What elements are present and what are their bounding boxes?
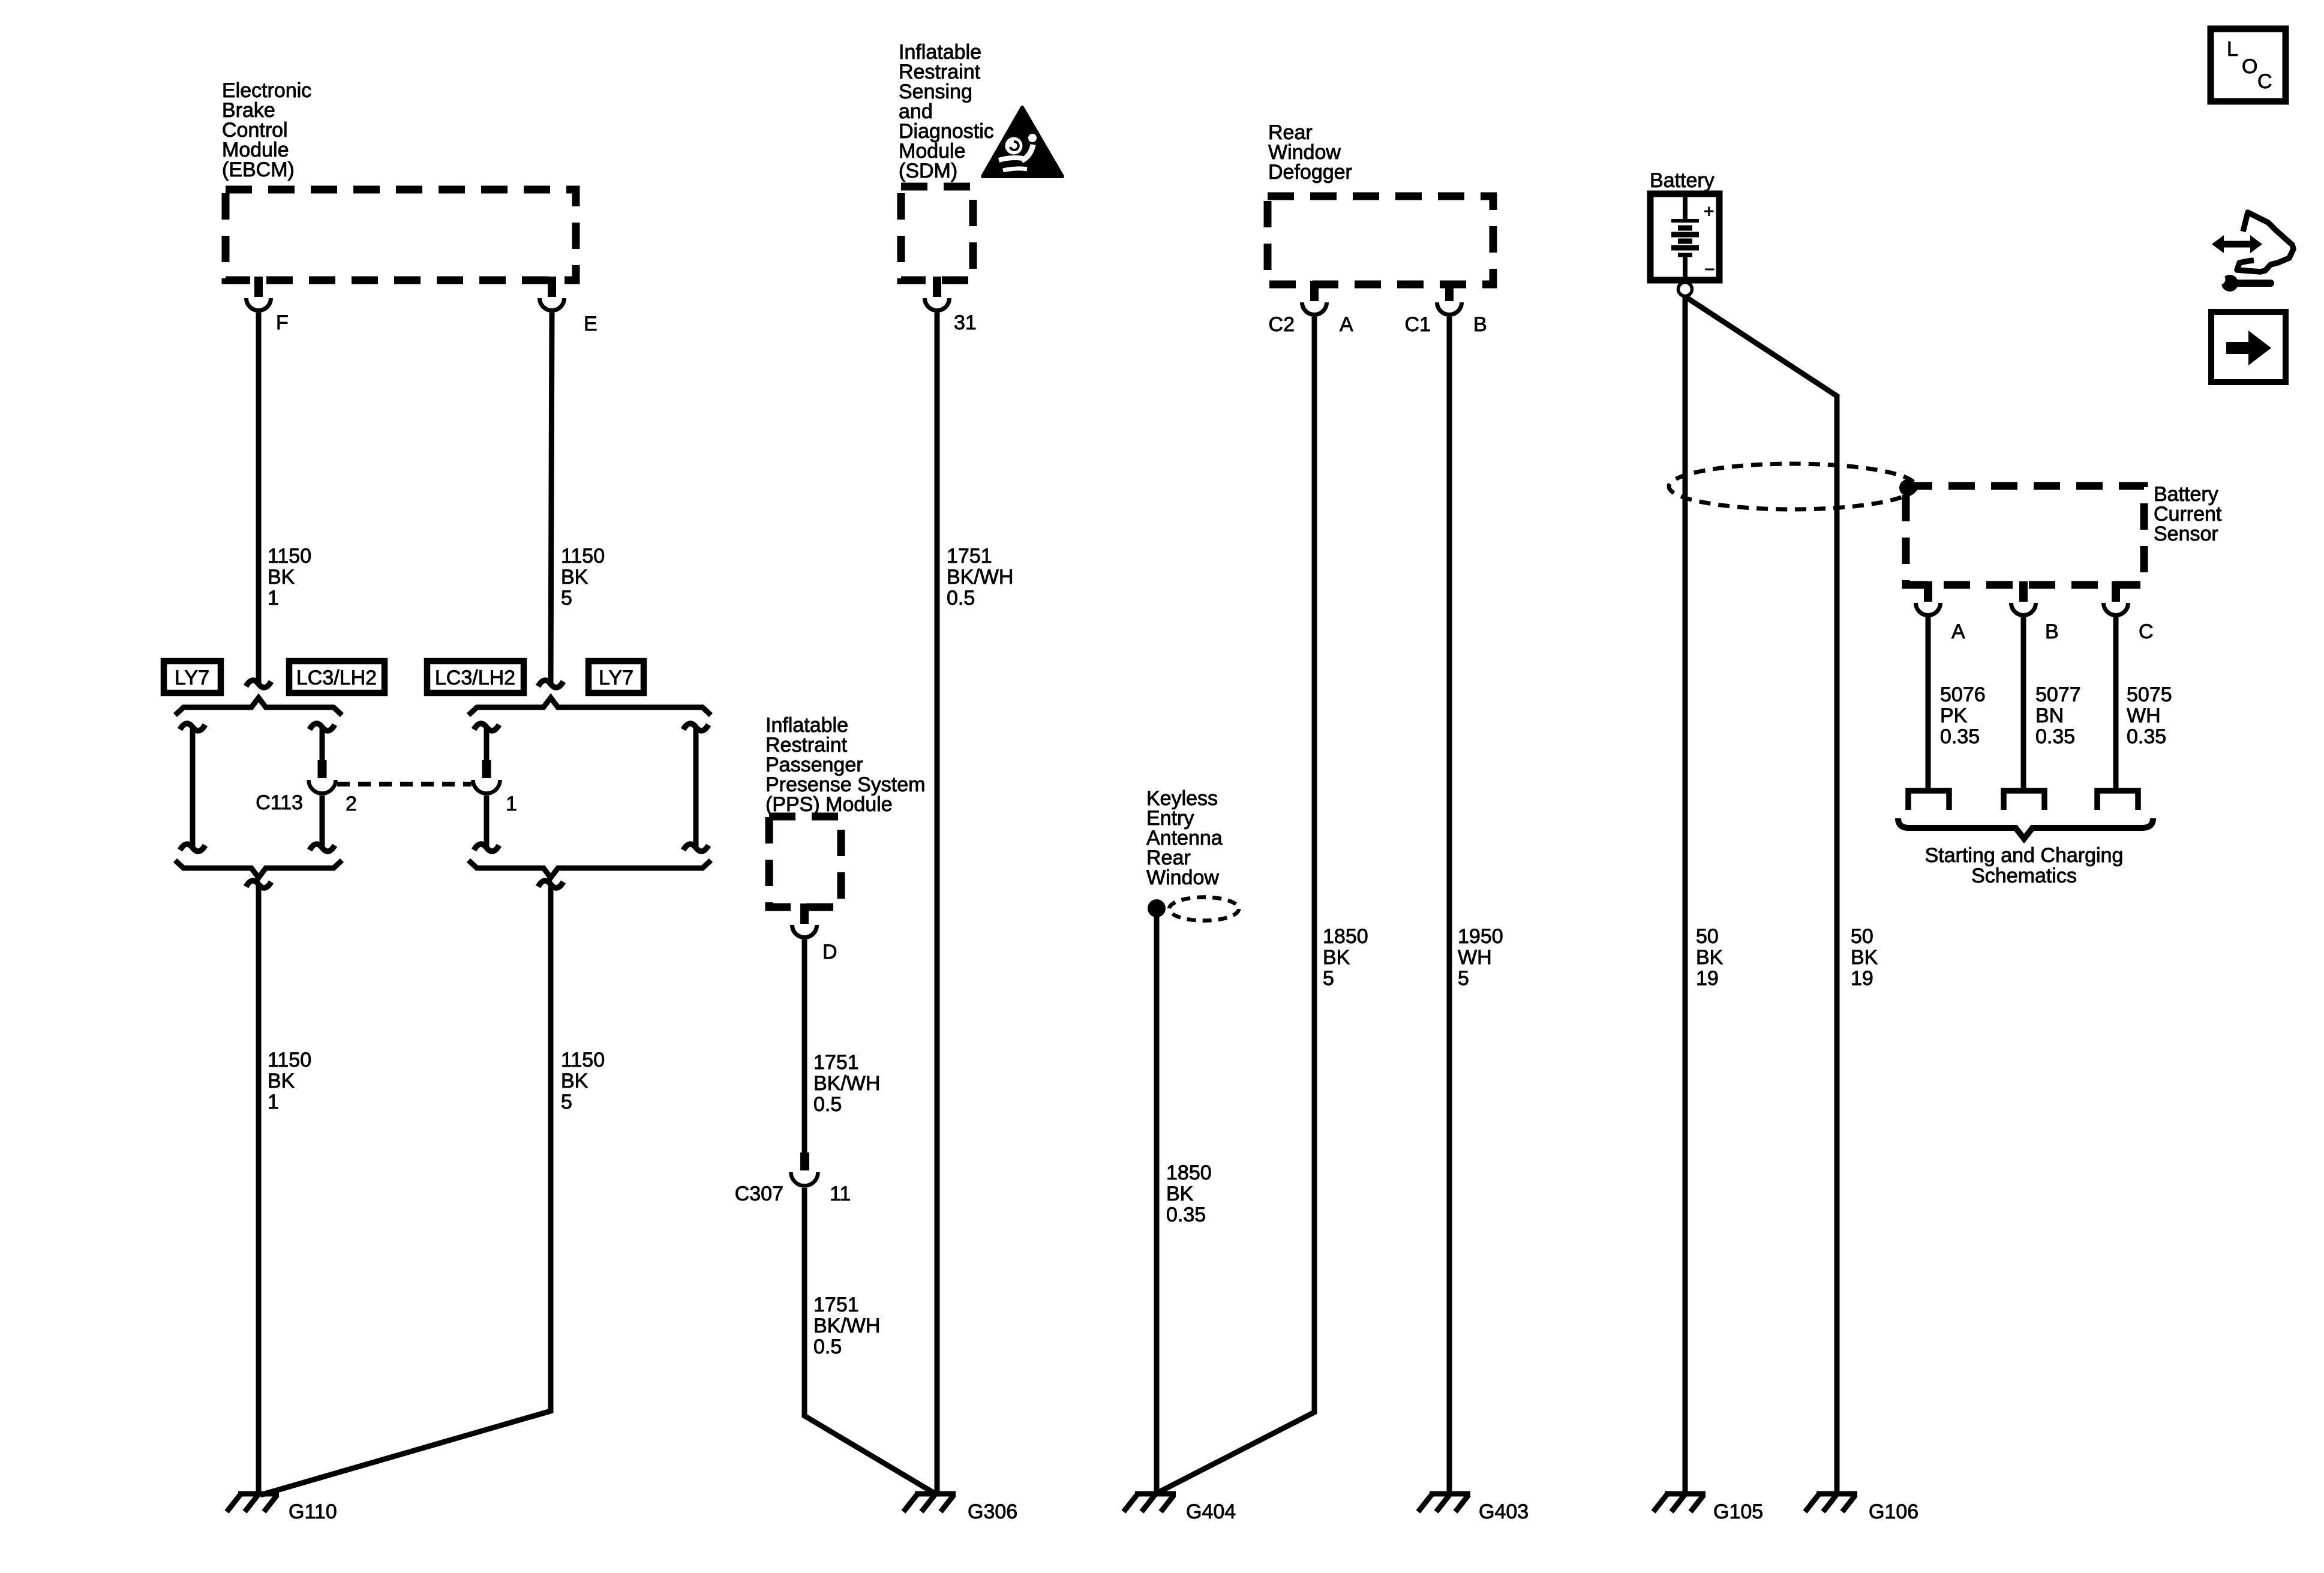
svg-text:G403: G403 (1479, 1500, 1529, 1523)
ground G306 (903, 1494, 956, 1512)
wire label 1150 BK 1 (upper) (268, 545, 311, 610)
ground G105 (1653, 1494, 1706, 1512)
label Inflatable Restraint Sensing and Diagnostic Module (SDM) (899, 41, 994, 182)
forward arrow box icon (2211, 312, 2286, 382)
connector C307 pin 11 (male pin and terminal) (791, 1152, 818, 1186)
svg-text:D: D (822, 941, 837, 963)
pin B of current sensor (2011, 581, 2036, 616)
wire break symbol on F wire (246, 680, 271, 688)
wire LC3/LH2 path lower (left) (320, 795, 325, 848)
keyless entry antenna (node dot and dashed loop) (1148, 897, 1239, 921)
ground label G403 (1479, 1500, 1529, 1523)
svg-text:LC3/LH2: LC3/LH2 (296, 667, 377, 689)
label Keyless Entry Antenna Rear Window (1146, 787, 1223, 889)
wire label 1850 BK 0.35 (1166, 1161, 1212, 1226)
svg-text:G404: G404 (1186, 1500, 1236, 1523)
wire label 1150 BK 5 (lower) (561, 1049, 605, 1113)
svg-text:1: 1 (506, 792, 517, 815)
svg-text:G105: G105 (1713, 1500, 1763, 1523)
wire 1150 BK 5 to G110 (260, 884, 551, 1495)
svg-text:C307: C307 (735, 1182, 783, 1205)
pin label A (1951, 620, 1965, 643)
label Battery Current Sensor (2154, 483, 2222, 545)
break symbol bottom of LC3/LH2 path (left) (310, 844, 335, 851)
connector C113 pin 2 (male pin and terminal) (309, 760, 336, 794)
ground G106 (1805, 1494, 1857, 1512)
connector C113 pin 1 (male pin and terminal) (473, 760, 500, 794)
module Rear Window Defogger (dashed box) (1268, 196, 1493, 284)
svg-text:C2: C2 (1269, 313, 1295, 336)
pin label B of defogger (1473, 313, 1487, 336)
battery symbol (1650, 194, 1719, 296)
pin number 2 of C113 (346, 792, 357, 815)
svg-text:2: 2 (346, 792, 357, 815)
wire label 1751 BK/WH 0.5 (SDM) (947, 545, 1013, 610)
connector label C113 (256, 791, 303, 814)
ground label G306 (968, 1500, 1017, 1523)
svg-text:O: O (2242, 55, 2257, 78)
module SDM (dashed box) (901, 187, 973, 280)
module EBCM (dashed box) (226, 190, 576, 280)
svg-text:F: F (276, 311, 289, 334)
wire label 5076 PK 0.35 (1940, 683, 1986, 748)
harness/diagnosis icon (double arrow, outline, wrench) (2212, 212, 2293, 292)
option split brace bottom left (175, 860, 342, 878)
pin F of EBCM (247, 277, 271, 311)
label Inflatable Restraint Passenger Presense System (PPS) Module (765, 714, 925, 816)
break symbol bottom of LC3/LH2 path (right) (474, 844, 499, 851)
wire 50 BK 19 from battery to G105 (1683, 296, 1688, 1494)
connector label C2 (1269, 313, 1295, 336)
airbag warning triangle icon (983, 107, 1062, 176)
off-page terminal for wire B (2004, 791, 2044, 810)
dashed mating line of connector C113 (337, 782, 472, 786)
svg-text:C: C (2257, 70, 2272, 93)
wire 1751 BK/WH 0.5 from SDM pin 31 to G306 (935, 313, 940, 1494)
pin label 31 (954, 311, 977, 334)
wire 1150 BK 5 from EBCM pin E (551, 313, 552, 686)
pin label C (2139, 620, 2154, 643)
underbrace to Starting and Charging Schematics (1898, 818, 2153, 839)
wire label 1751 BK/WH 0.5 (upper PPS) (813, 1051, 880, 1116)
pin C of current sensor (2104, 581, 2128, 616)
off-page terminal for wire A (1908, 791, 1949, 810)
svg-text:31: 31 (954, 311, 977, 334)
break symbol top of LC3/LH2 path (left) (310, 724, 335, 731)
svg-text:L: L (2227, 38, 2238, 61)
ground label G106 (1869, 1500, 1918, 1523)
wire 5075 WH 0.35 from sensor pin C (2113, 617, 2119, 791)
svg-text:B: B (2045, 620, 2059, 643)
wire 5076 PK 0.35 from sensor pin A (1926, 617, 1931, 791)
wire 1751 BK/WH 0.5 from PPS pin D (802, 939, 807, 1154)
option label box LY7 (right) (588, 661, 644, 693)
svg-text:C1: C1 (1405, 313, 1431, 336)
svg-text:G110: G110 (289, 1500, 337, 1523)
break symbol top of LY7 path (left) (180, 724, 205, 731)
svg-text:A: A (1951, 620, 1965, 643)
pin label E (584, 313, 597, 335)
break symbol below left bottom brace (246, 881, 271, 888)
pin label F (276, 311, 289, 334)
ground label G110 (289, 1500, 337, 1523)
break symbol bottom of LY7 path (left) (180, 844, 205, 851)
off-page terminal for wire C (2097, 791, 2138, 810)
svg-text:LY7: LY7 (175, 667, 209, 689)
option split brace top left (175, 698, 342, 715)
option label box LC3/LH2 (right) (427, 661, 524, 693)
wire 1751 BK/WH 0.5 from C307 to G306 (804, 1188, 933, 1493)
label Battery (1650, 169, 1715, 192)
module Battery Current Sensor (dashed box) (1906, 486, 2144, 585)
ground G110 (227, 1494, 279, 1512)
wire LC3/LH2 path lower (right) (484, 795, 490, 848)
wire label 1751 BK/WH 0.5 (lower PPS) (813, 1293, 880, 1358)
pin 31 of SDM (925, 277, 950, 311)
wire LC3/LH2 path upper (right) (484, 727, 490, 761)
wire label 1950 WH 5 (1458, 925, 1503, 990)
break symbol top of LC3/LH2 path (right) (474, 724, 499, 731)
ground G404 (1124, 1494, 1176, 1512)
pin label A of defogger (1340, 313, 1353, 336)
module PPS (dashed box) (769, 816, 841, 907)
connector label C307 (735, 1182, 783, 1205)
break symbol top of LY7 path (right) (683, 724, 708, 731)
svg-text:E: E (584, 313, 597, 335)
pin label B (2045, 620, 2059, 643)
pin A of current sensor (1916, 581, 1941, 616)
svg-text:Battery: Battery (1650, 169, 1715, 192)
break symbol below right bottom brace (538, 881, 563, 888)
svg-text:G106: G106 (1869, 1500, 1918, 1523)
svg-text:KeylessEntryAntennaRearWindow: KeylessEntryAntennaRearWindow (1146, 787, 1223, 889)
svg-text:−: − (1704, 260, 1715, 280)
svg-text:LC3/LH2: LC3/LH2 (435, 667, 515, 689)
pin number 1 of C113 (506, 792, 517, 815)
option label box LY7 (left) (164, 661, 221, 693)
svg-text:B: B (1473, 313, 1487, 336)
svg-text:11: 11 (830, 1182, 851, 1205)
wire 1950 WH 5 from defogger pin B to G403 (1447, 317, 1452, 1494)
wire label 1850 BK 5 (1323, 925, 1368, 990)
wire 5077 BN 0.35 from sensor pin B (2021, 617, 2026, 791)
connector label C1 (1405, 313, 1431, 336)
pin A (connector C2) of defogger (1302, 281, 1327, 315)
svg-text:BatteryCurrentSensor: BatteryCurrentSensor (2154, 483, 2222, 545)
wire label 50 BK 19 (right) (1851, 925, 1878, 990)
wire label 50 BK 19 (left) (1696, 925, 1724, 990)
svg-text:C: C (2139, 620, 2154, 643)
label Starting and Charging Schematics (1925, 844, 2124, 887)
wire LY7 path (left) (190, 727, 196, 848)
option label box LC3/LH2 (left) (289, 661, 385, 693)
pin D of PPS module (792, 903, 817, 938)
label Electronic Brake Control Module (EBCM) (222, 79, 311, 181)
battery current sensor pickup loop (dashed ellipse) (1669, 464, 1916, 509)
wire label 1150 BK 5 (upper) (561, 545, 605, 610)
ground label G404 (1186, 1500, 1236, 1523)
wire 1150 BK 1 to G110 (256, 884, 262, 1494)
wire label 5077 BN 0.35 (2035, 683, 2081, 748)
ground label G105 (1713, 1500, 1763, 1523)
wire break symbol on E wire (538, 680, 563, 688)
wire 1850 BK 5 from defogger pin A to G404 (1158, 317, 1314, 1493)
svg-text:C113: C113 (256, 791, 303, 814)
svg-text:G306: G306 (968, 1500, 1017, 1523)
pin label D (822, 941, 837, 963)
wire label 5075 WH 0.35 (2127, 683, 2172, 748)
svg-text:LY7: LY7 (599, 667, 633, 689)
wire 50 BK 19 battery diagonal to G106 (1688, 298, 1837, 1494)
wire 1850 BK 0.35 from antenna to G404 (1154, 913, 1160, 1494)
wire LY7 path (right) (693, 727, 699, 848)
wire label 1150 BK 1 (lower) (268, 1049, 311, 1113)
wire LC3/LH2 path upper (left) (320, 727, 325, 761)
junction dot at sensor (1899, 479, 1916, 496)
ground G403 (1418, 1494, 1470, 1512)
option split brace top right (469, 698, 711, 715)
wire 1150 BK 1 from EBCM pin F (256, 313, 262, 686)
pin number 11 of C307 (830, 1182, 851, 1205)
svg-text:+: + (1704, 202, 1715, 221)
label Rear Window Defogger (1268, 121, 1352, 184)
break symbol bottom of LY7 path (right) (683, 844, 708, 851)
svg-text:A: A (1340, 313, 1353, 336)
pin B (connector C1) of defogger (1437, 281, 1462, 315)
LOC reference box icon (2211, 29, 2286, 101)
pin E of EBCM (540, 277, 565, 311)
option split brace bottom right (469, 860, 711, 878)
